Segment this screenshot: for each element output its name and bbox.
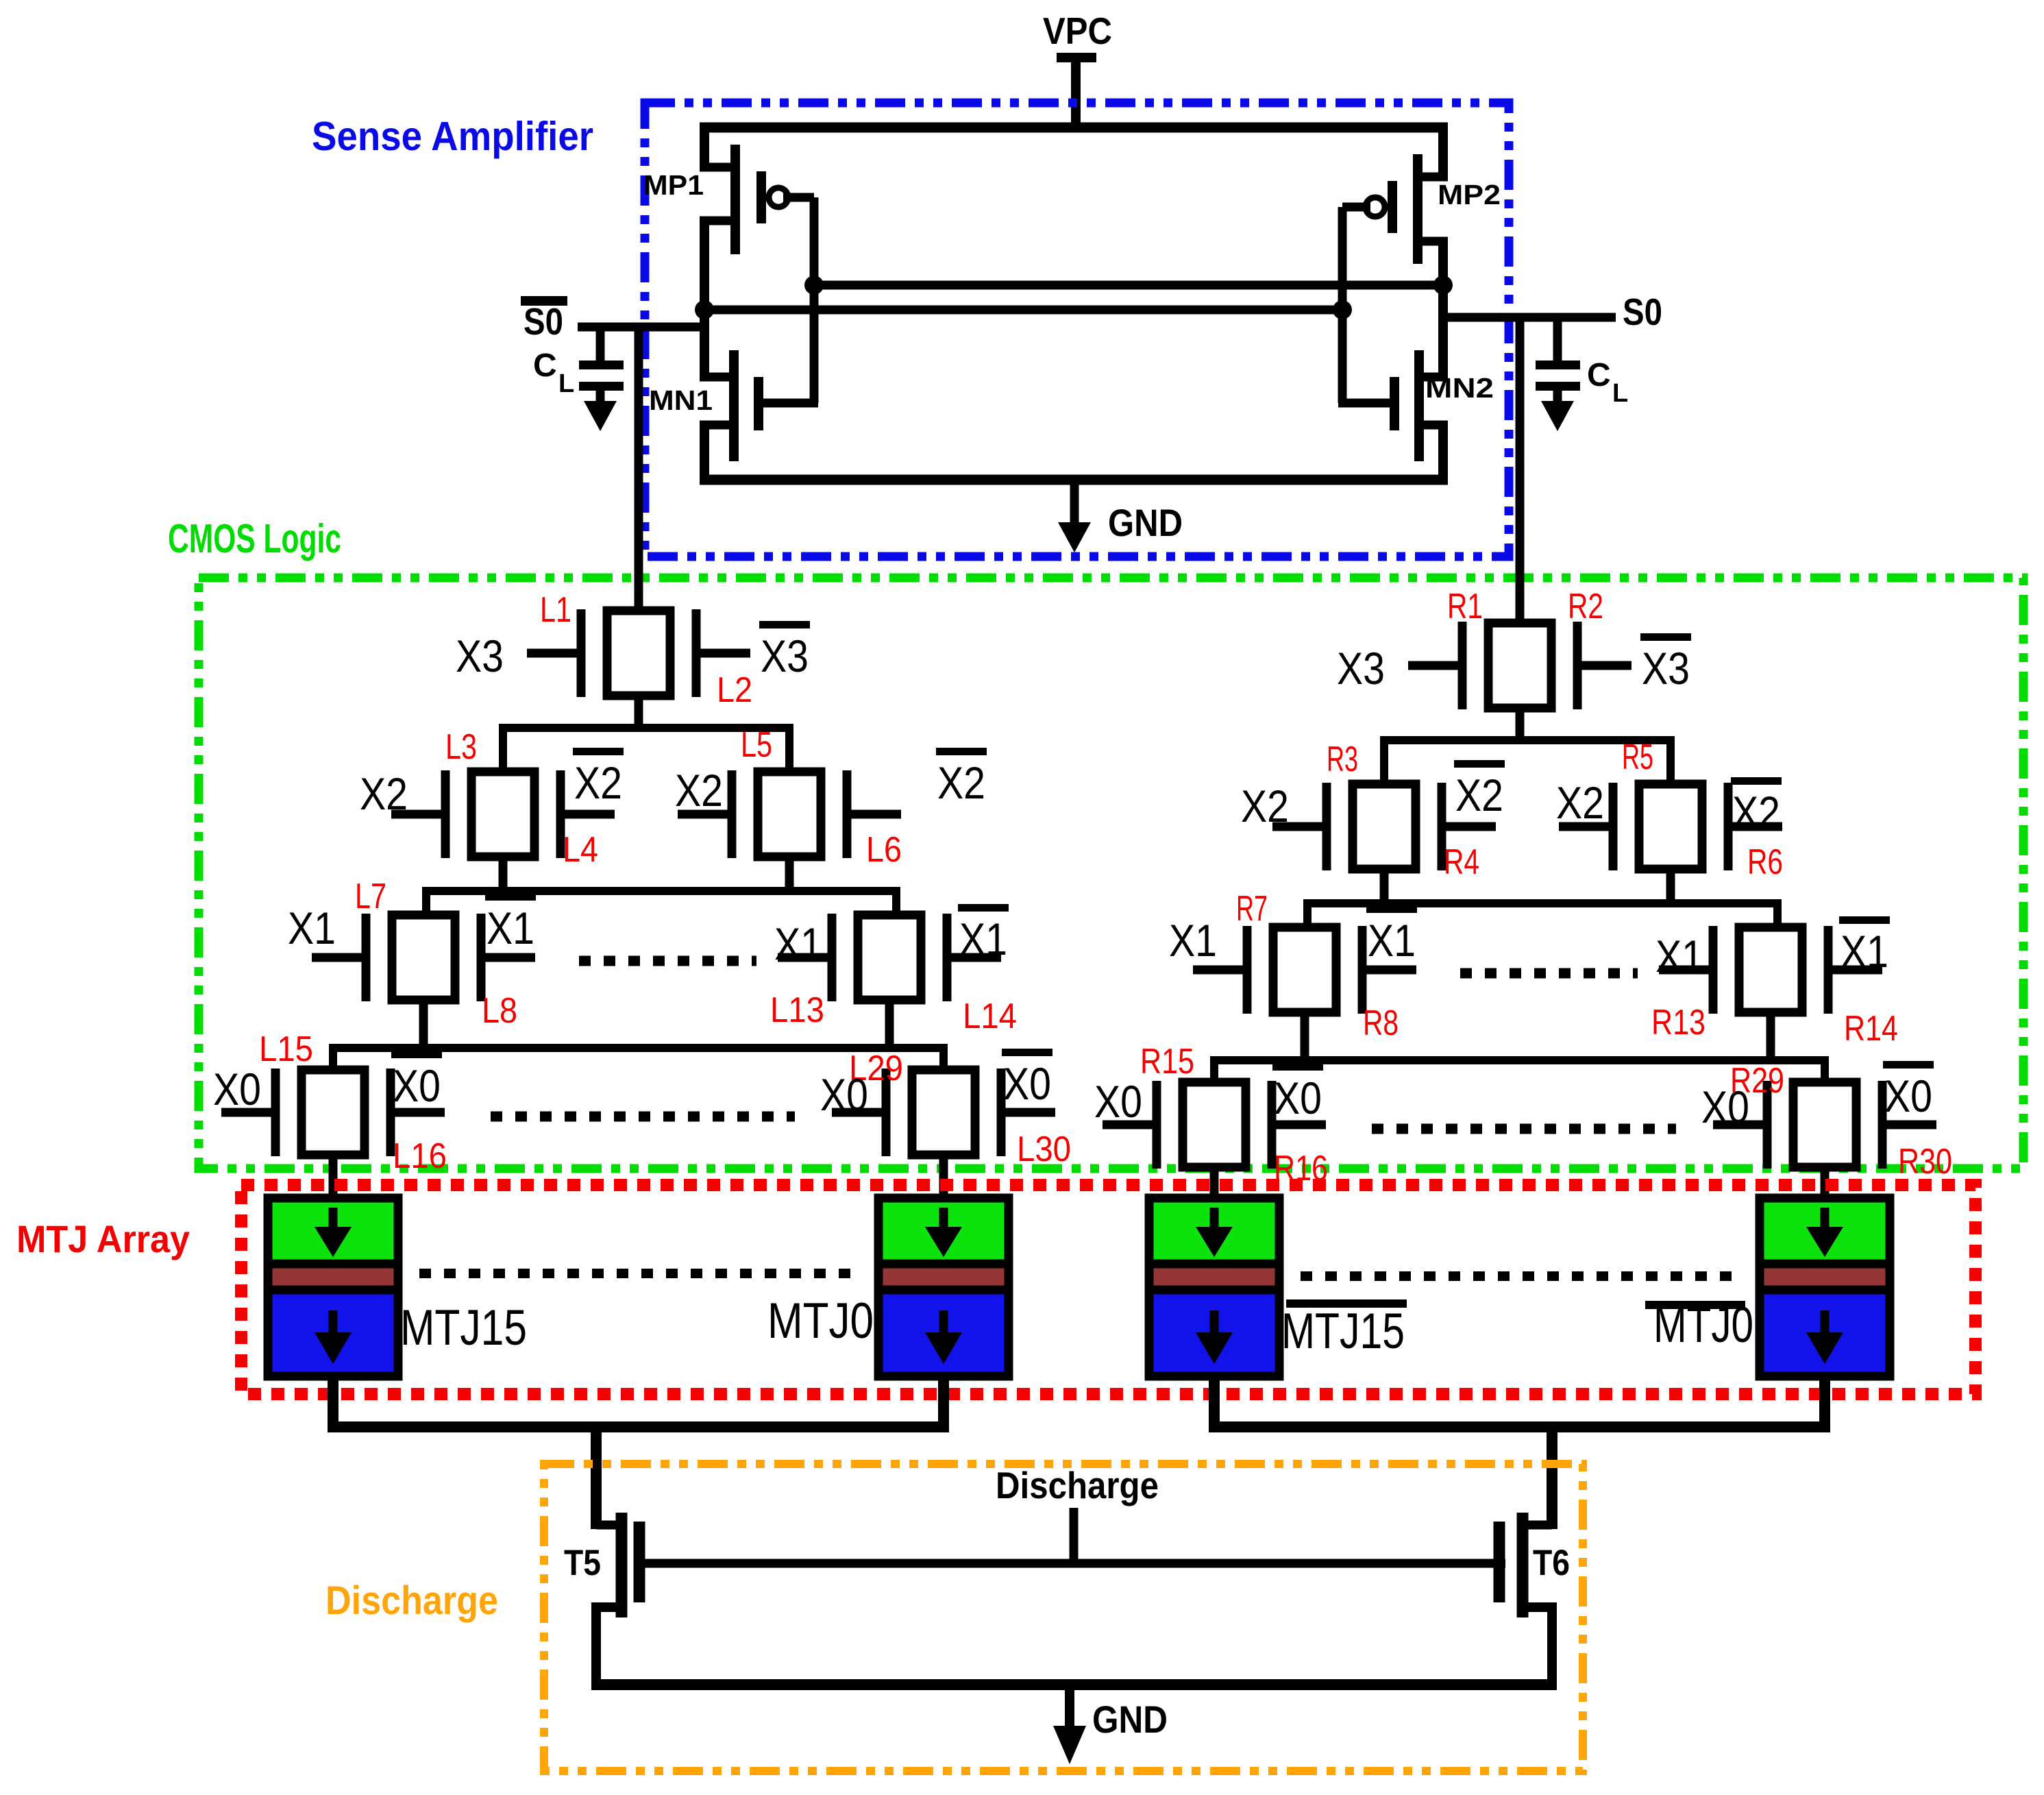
svg-text:L2: L2: [717, 670, 752, 710]
transistor pair L13/L14: [778, 914, 1001, 1001]
wire: row3-row4 bus bar (right tree): [1210, 1056, 1829, 1064]
gate label X0-bar (L29/L30 right): [1002, 1049, 1052, 1109]
label CL (left): [533, 347, 574, 398]
wire: left pair common node to T5: [328, 1421, 949, 1432]
svg-text:X3: X3: [1642, 643, 1690, 694]
label S0bar: [521, 296, 567, 343]
dashed box: Discharge region: [544, 1464, 1583, 1771]
wire: row3-row4 bus bar (left tree): [329, 1044, 948, 1052]
dotted continuation line (right tree row4): [1372, 1124, 1676, 1134]
transistor pair R13/R14: [1659, 926, 1882, 1014]
MTJ device MTJ0bar (free layer / barrier / fixed layer): [1760, 1198, 1890, 1376]
wire: row2-row3 bus bar (left tree): [422, 887, 900, 895]
transistor pair L15/L16: [221, 1069, 445, 1156]
MTJ device MTJ0 (free layer / barrier / fixed layer): [878, 1198, 1009, 1376]
svg-text:MN1: MN1: [649, 384, 713, 416]
gate label X2-bar (L3/L4 right): [573, 748, 624, 808]
junction dot at S0bar node: [695, 300, 714, 319]
svg-text:X3: X3: [1337, 643, 1385, 694]
svg-text:L6: L6: [866, 830, 902, 870]
svg-text:MP2: MP2: [1438, 179, 1501, 210]
svg-text:MTJ Array: MTJ Array: [16, 1217, 190, 1260]
wire: sense-amp GND rail: [700, 475, 1448, 485]
gate label X1-bar (L13/L14 right): [958, 904, 1009, 964]
gate label X2-bar (R5/R6 right): [1731, 777, 1782, 838]
gate label X0-bar (L15/L16 right): [391, 1051, 442, 1111]
svg-text:R8: R8: [1363, 1003, 1399, 1043]
transistor pair L5/L6: [678, 770, 901, 858]
dotted continuation line (left tree row4): [491, 1112, 795, 1122]
svg-text:R2: R2: [1568, 587, 1603, 626]
node S0bar terminal wire: [578, 323, 709, 332]
svg-text:R13: R13: [1651, 1003, 1706, 1042]
wire: MTJ15bar bottom electrode: [1209, 1376, 1220, 1432]
transistor MN2 (NMOS): [1394, 237, 1448, 484]
label CL (right): [1587, 357, 1628, 408]
svg-text:R5: R5: [1622, 737, 1653, 777]
wire: row2 output stubs (right tree): [1380, 869, 1389, 903]
wire: L29 branch to MTJ0: [939, 1155, 948, 1203]
svg-text:T5: T5: [564, 1543, 601, 1583]
wire: S0 terminal (right): [1439, 313, 1616, 322]
svg-text:X0: X0: [1884, 1071, 1932, 1121]
svg-text:X2: X2: [1241, 781, 1289, 831]
svg-text:X0: X0: [213, 1064, 261, 1114]
gate label X0-bar (R15/R16 right): [1272, 1063, 1323, 1123]
svg-text:X1: X1: [959, 914, 1007, 964]
svg-text:X0: X0: [1003, 1058, 1051, 1109]
wire: R29 branch to MTJ0bar: [1821, 1167, 1830, 1203]
wire: right pair common node to T6: [1209, 1421, 1830, 1432]
wire: T6 drain drop: [1547, 1427, 1557, 1529]
wire: S0 column into CMOS tree: [1516, 317, 1525, 627]
wire: row3 output stubs (right tree): [1301, 1012, 1309, 1060]
svg-text:L1: L1: [540, 590, 571, 630]
svg-text:X1: X1: [487, 903, 534, 953]
wire: MTJ0 bottom electrode: [938, 1376, 949, 1432]
svg-text:X0: X0: [393, 1060, 441, 1111]
svg-text:L7: L7: [355, 877, 386, 916]
junction dot at MP1 gate node: [804, 276, 824, 295]
wire: R15 branch to MTJ15bar: [1210, 1167, 1219, 1203]
svg-text:X0: X0: [1701, 1082, 1749, 1132]
gate label X3-bar (L1/L2 right): [759, 621, 810, 681]
wire: discharge GND rail: [591, 1679, 1557, 1690]
dotted continuation line (MTJ array left): [419, 1269, 851, 1278]
transistor MP2 (PMOS): [1366, 123, 1448, 264]
wire: row4 branch drops (right tree): [1210, 1056, 1218, 1082]
transistor pair R15/R16: [1103, 1081, 1326, 1169]
transistor pair R3/R4: [1272, 783, 1496, 870]
gate label X2-bar (L5/L6 right): [936, 748, 987, 808]
wire: row1 output stub (right tree): [1516, 708, 1525, 740]
dashed box: CMOS Logic region: [199, 578, 2023, 1169]
svg-text:R14: R14: [1844, 1009, 1898, 1049]
svg-text:L3: L3: [445, 727, 477, 767]
gate label X1-bar (R13/R14 right): [1839, 916, 1890, 977]
svg-text:VPC: VPC: [1043, 10, 1112, 52]
wire: row1 output stub (left tree): [635, 696, 643, 728]
svg-text:X2: X2: [360, 768, 408, 819]
wire: row4 branch drops (left tree): [329, 1044, 337, 1070]
svg-text:CMOS Logic: CMOS Logic: [168, 516, 341, 561]
wire: row3 output stubs (left tree): [419, 1000, 428, 1048]
gate label X1-bar (L7/L8 right): [485, 893, 536, 953]
wire: MP2 gate to cross-coupled node (vertical): [1342, 203, 1370, 212]
MTJ device MTJ15bar (free layer / barrier / fixed layer): [1149, 1198, 1279, 1376]
svg-text:GND: GND: [1092, 1698, 1168, 1741]
power symbol VPC (T-bar): [1057, 53, 1096, 132]
wire: discharge gate stem: [1070, 1508, 1079, 1563]
capacitor CL (right): [1536, 317, 1580, 431]
transistor pair R1/R2: [1408, 622, 1631, 709]
label MTJ0bar: [1645, 1297, 1753, 1353]
wire: VPC top rail: [700, 123, 1448, 133]
wire: S0bar column into CMOS tree: [635, 327, 643, 615]
svg-text:R4: R4: [1444, 842, 1479, 882]
svg-text:GND: GND: [1108, 501, 1183, 544]
wire: lower cross-coupling rail (S0bar node to MP2/MN2 gates): [704, 306, 1342, 315]
svg-text:R7: R7: [1236, 889, 1268, 929]
svg-text:L15: L15: [259, 1029, 313, 1069]
wire: MP1 gate to cross-coupled node (vertical): [783, 193, 814, 202]
transistor pair L7/L8: [312, 914, 535, 1001]
svg-text:X1: X1: [1169, 915, 1217, 966]
svg-text:MTJ0: MTJ0: [767, 1293, 874, 1349]
svg-text:R30: R30: [1898, 1142, 1952, 1182]
wire: MTJ15 bottom electrode: [328, 1376, 338, 1432]
svg-text:MTJ15: MTJ15: [400, 1300, 527, 1356]
wire: upper cross-coupling rail (MP1/MN1 gates to S0 node): [814, 281, 1443, 290]
dotted continuation line (MTJ array right): [1301, 1271, 1734, 1281]
svg-text:X0: X0: [1274, 1073, 1322, 1123]
transistor pair R29/R30: [1713, 1081, 1936, 1169]
svg-text:X3: X3: [761, 631, 809, 681]
dotted continuation line (right tree row3): [1460, 968, 1638, 979]
gate label X3-bar (R1/R2 right): [1640, 633, 1691, 694]
wire: MN2 gate lead: [1338, 399, 1390, 408]
transistor T6 (NMOS): [1499, 1513, 1552, 1685]
dotted box: MTJ Array region: [241, 1185, 1975, 1394]
svg-text:T6: T6: [1533, 1543, 1570, 1583]
junction dot at S0 node (MP2/MN2 drain): [1433, 276, 1453, 295]
svg-text:C: C: [533, 347, 557, 384]
svg-text:X1: X1: [1655, 931, 1703, 981]
wire: row1-row2 bus bar (right tree): [1380, 736, 1675, 744]
svg-text:MN2: MN2: [1425, 372, 1494, 404]
transistor MN1 (NMOS): [700, 217, 759, 484]
svg-text:L16: L16: [393, 1136, 447, 1176]
wire: row2 output stubs (left tree): [499, 857, 508, 891]
svg-text:Discharge: Discharge: [996, 1464, 1159, 1506]
svg-text:X3: X3: [456, 631, 504, 681]
capacitor CL (left): [579, 327, 624, 431]
svg-text:X1: X1: [1368, 915, 1416, 966]
svg-text:X2: X2: [675, 765, 723, 816]
wire: MTJ0bar bottom electrode: [1819, 1376, 1830, 1432]
wire: row1-row2 bus bar (left tree): [499, 724, 793, 732]
svg-text:L8: L8: [482, 991, 517, 1031]
wire: row3 branch drops (left tree): [422, 887, 430, 915]
ground symbol (sense amp): [1070, 480, 1079, 526]
wire: MN1 gate lead: [763, 399, 818, 408]
svg-text:X0: X0: [1094, 1076, 1142, 1127]
svg-text:Sense Amplifier: Sense Amplifier: [312, 114, 593, 159]
svg-text:X2: X2: [1556, 777, 1604, 828]
wire: discharge gate rail: [639, 1559, 1505, 1568]
transistor pair L29/L30: [832, 1069, 1055, 1156]
svg-text:X1: X1: [1840, 926, 1888, 977]
svg-text:MP1: MP1: [643, 169, 704, 201]
svg-text:R15: R15: [1140, 1042, 1194, 1082]
svg-text:R1: R1: [1447, 587, 1483, 626]
svg-text:L5: L5: [741, 725, 772, 765]
svg-text:X1: X1: [774, 918, 822, 969]
wire: row2 branch drops (left tree): [499, 724, 507, 772]
svg-text:X2: X2: [1455, 770, 1503, 820]
svg-text:X2: X2: [574, 757, 622, 808]
transistor pair L1/L2: [527, 609, 750, 697]
svg-text:X1: X1: [288, 903, 336, 953]
svg-text:L: L: [1612, 379, 1628, 408]
transistor T5 (NMOS): [596, 1513, 639, 1685]
svg-text:X0: X0: [820, 1069, 868, 1120]
transistor MP1 (PMOS): [700, 123, 788, 254]
dotted continuation line (left tree row3): [579, 956, 756, 966]
label MTJ15bar: [1281, 1299, 1407, 1359]
svg-text:R3: R3: [1327, 740, 1358, 779]
gate label X1-bar (R7/R8 right): [1366, 905, 1417, 966]
svg-text:L4: L4: [563, 830, 598, 870]
svg-text:L13: L13: [770, 990, 824, 1030]
svg-text:S0: S0: [524, 300, 563, 343]
transistor pair R5/R6: [1559, 783, 1782, 870]
svg-text:L30: L30: [1017, 1129, 1071, 1169]
wire: row3 branch drops (right tree): [1303, 899, 1312, 927]
svg-text:R6: R6: [1747, 842, 1783, 882]
wire: T5 drain drop: [591, 1427, 602, 1529]
gate label X2-bar (R3/R4 right): [1454, 760, 1505, 820]
wire: row2 branch drops (right tree): [1380, 736, 1388, 784]
svg-text:X2: X2: [1732, 787, 1780, 838]
wire: row2-row3 bus bar (right tree): [1303, 899, 1782, 907]
ground symbol (discharge): [1065, 1685, 1074, 1730]
svg-text:MTJ15: MTJ15: [1281, 1304, 1405, 1359]
transistor pair R7/R8: [1193, 926, 1416, 1014]
dashed box: Sense Amplifier region: [645, 103, 1509, 557]
svg-text:Discharge: Discharge: [325, 1578, 498, 1623]
svg-text:X2: X2: [937, 757, 985, 808]
MTJ device MTJ15 (free layer / barrier / fixed layer): [268, 1198, 398, 1376]
junction dot at MP2/MN2 gate node: [1333, 300, 1352, 319]
gate label X0-bar (R29/R30 right): [1883, 1061, 1934, 1121]
wire: L15 branch to MTJ15: [329, 1155, 338, 1203]
svg-text:L: L: [558, 369, 574, 398]
svg-text:L14: L14: [963, 997, 1017, 1036]
svg-text:C: C: [1587, 357, 1611, 393]
svg-text:S0: S0: [1623, 291, 1662, 333]
transistor pair L3/L4: [391, 770, 615, 858]
